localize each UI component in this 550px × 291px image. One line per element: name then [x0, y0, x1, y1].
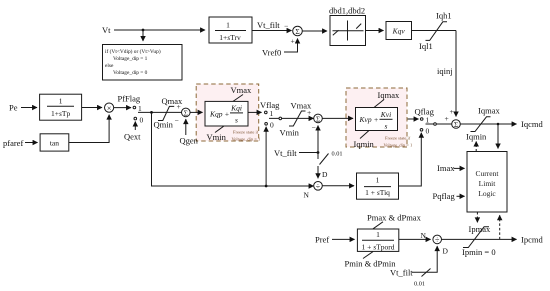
svg-text:Iqh1: Iqh1 [436, 11, 452, 21]
wire Tp to multiplier [82, 107, 102, 109]
wire Imax into CLL [454, 167, 465, 169]
block 1/(1+sTrv) [209, 17, 252, 43]
svg-text:+: + [445, 114, 449, 123]
label Iqh1 [436, 11, 452, 21]
wire Vref0 to S1 [284, 39, 298, 53]
label Ipmax [469, 224, 491, 234]
node Vref0 label [262, 48, 281, 58]
junction Vt_filt riser [317, 151, 320, 154]
svg-text:s: s [235, 116, 238, 125]
svg-text:Voltage_dip = 1: Voltage_dip = 1 [384, 143, 413, 148]
svg-text:1: 1 [376, 176, 380, 185]
plus sign at S4 [307, 108, 311, 117]
svg-text:Kvi: Kvi [380, 110, 391, 119]
svg-text:Iqmax: Iqmax [478, 106, 500, 116]
label Iqmin (lower) [466, 132, 487, 142]
svg-text:Vt_filt: Vt_filt [257, 20, 280, 30]
freeze note (Kqp) [232, 130, 261, 142]
svg-text:Ipmin = 0: Ipmin = 0 [462, 247, 496, 257]
wire Tiq up to Qflag contact 0 [399, 133, 422, 186]
label Vflag [260, 100, 280, 110]
wire Vt_filt middle to riser [299, 152, 318, 154]
svg-text:Iql1: Iql1 [419, 41, 433, 51]
svg-text:Logic: Logic [478, 189, 496, 198]
plus sign at S2 input [445, 114, 449, 123]
label PfFlag [118, 94, 141, 104]
switch Vflag contact 1 [265, 109, 274, 118]
svg-text:Iqmax: Iqmax [378, 90, 400, 100]
svg-text:Qext: Qext [124, 132, 141, 142]
wire S3 to Kqp block [190, 111, 202, 113]
svg-text:D: D [322, 170, 328, 179]
switch Qflag wiper output [426, 123, 452, 126]
svg-text:Pe: Pe [9, 103, 18, 113]
svg-text:÷: ÷ [435, 235, 440, 244]
svg-text:dbd1,dbd2: dbd1,dbd2 [329, 6, 365, 16]
svg-text:−: − [175, 116, 179, 125]
node Ipcmd label [521, 235, 543, 245]
PI block Kqp+Kqi/s [205, 101, 248, 126]
switch Qflag contact 0 [420, 127, 429, 136]
wire Pref to Tpord block [332, 238, 355, 240]
label Iql1 [419, 41, 433, 51]
wire iqinj down to summer S2 [455, 31, 457, 117]
multiplier M1 [105, 103, 114, 113]
svg-text:+: + [450, 107, 454, 116]
limiter Iqmax/Iqmin on Iqcmd [471, 117, 491, 132]
wire Vt_filt bottom to D2 with 0.01 floor [412, 246, 437, 287]
svg-text:Ipmax: Ipmax [469, 224, 491, 234]
wire riser up to S4 (minus) [317, 126, 319, 153]
wire deadband to Kqv [366, 30, 384, 32]
svg-text:Σ: Σ [295, 27, 299, 36]
svg-text:Σ: Σ [454, 121, 458, 129]
svg-text:×: × [107, 103, 112, 113]
node Qgen label [180, 136, 199, 146]
svg-text:Kvp +: Kvp + [359, 115, 379, 124]
wire pfaref to tan [25, 142, 38, 144]
wire tan to multiplier [69, 115, 109, 143]
switch PfFlag contact 0 [134, 116, 144, 125]
svg-text:Iqcmd: Iqcmd [521, 119, 543, 129]
svg-text:N: N [304, 191, 310, 200]
freeze note (Kvp) [384, 136, 413, 148]
wire Vt to Trv block [114, 29, 205, 31]
switch PfFlag output wire [138, 111, 182, 113]
plus sign at S3 [177, 102, 181, 111]
svg-text:0: 0 [140, 116, 144, 125]
svg-text:Freeze state if: Freeze state if [233, 130, 259, 135]
label Qmax [162, 96, 184, 106]
switch Vflag output wire [269, 117, 314, 120]
svg-text:Qmax: Qmax [162, 96, 184, 106]
svg-text:1+sTrv: 1+sTrv [219, 33, 241, 42]
svg-text:Vmax: Vmax [231, 85, 253, 95]
svg-text:0: 0 [270, 121, 274, 130]
wire Kqv to corner [412, 30, 457, 32]
svg-text:PfFlag: PfFlag [118, 94, 141, 104]
junction Q command branch [150, 111, 153, 114]
dashed wire Ipcmd feedback up into CLL [499, 215, 501, 239]
svg-text:Vt_filt: Vt_filt [274, 148, 297, 158]
svg-text:Vref0: Vref0 [262, 48, 281, 58]
node Imax label [437, 163, 455, 173]
summer S2 [452, 120, 461, 129]
svg-text:1: 1 [426, 116, 430, 125]
node pfaref label [3, 138, 23, 148]
block 1/(1+sTp) [40, 94, 82, 120]
plus sign at S1 [291, 37, 295, 46]
svg-text:Kqp +: Kqp + [209, 110, 229, 119]
svg-text:Pref: Pref [315, 235, 329, 245]
wire D2 to Ipcmd [442, 238, 517, 240]
summer S4 [314, 114, 323, 123]
svg-text:Qmin: Qmin [154, 120, 174, 130]
label Pmax & dPmax [367, 213, 422, 229]
deadband block [330, 16, 366, 46]
limiter Qmax/Qmin [158, 106, 174, 120]
node Vt_filt label (top) [257, 20, 280, 30]
plus sign iqinj at S2 [450, 107, 454, 116]
node Vt label [102, 25, 111, 35]
label Vmin (row2) [280, 128, 300, 138]
svg-text:tan: tan [50, 139, 59, 148]
svg-text:s: s [385, 122, 388, 131]
svg-text:iqinj: iqinj [437, 66, 453, 76]
svg-text:Vt: Vt [102, 25, 111, 35]
label Pmin & dPmin [345, 252, 397, 269]
svg-text:1: 1 [226, 21, 230, 30]
svg-text:Kqv: Kqv [392, 27, 406, 36]
svg-text:Qgen: Qgen [180, 136, 199, 146]
svg-text:Voltage_dip = 0: Voltage_dip = 0 [113, 70, 148, 76]
svg-text:Voltage_dip = 1: Voltage_dip = 1 [232, 137, 261, 142]
label Vmax (Kqp limit) [231, 85, 253, 101]
svg-text:÷: ÷ [316, 182, 321, 191]
svg-text:Iqmin: Iqmin [466, 132, 487, 142]
svg-text:0.01: 0.01 [332, 151, 343, 158]
label N at D1 [304, 191, 310, 200]
svg-text:if (Vt<Vdip) or (Vt>Vup): if (Vt<Vdip) or (Vt>Vup) [105, 48, 161, 55]
wire S1 to deadband [302, 30, 327, 32]
svg-text:Limit: Limit [479, 179, 497, 188]
minus sign at S4 [312, 123, 316, 132]
divider D1 [314, 182, 323, 191]
svg-text:N: N [421, 231, 427, 240]
svg-text:Pmin & dPmin: Pmin & dPmin [345, 259, 397, 269]
block tan [40, 134, 69, 151]
svg-text:0: 0 [426, 127, 430, 136]
node iqinj label [437, 66, 453, 76]
label Iqmax (Kvp limit) [374, 90, 400, 108]
svg-text:Kqi: Kqi [230, 104, 242, 113]
wire Qgen up to S3 [185, 119, 187, 135]
svg-text:Σ: Σ [184, 109, 188, 117]
svg-text:−: − [312, 123, 316, 132]
block Current Limit Logic [467, 152, 507, 213]
wire Trv to summer S1 [252, 30, 292, 32]
wire S2 to Iqcmd [460, 123, 516, 125]
label Ipmin = 0 [462, 247, 496, 257]
label Iqmin (Kvp limit) [354, 131, 375, 150]
dashed freeze box around Kqp PI [196, 84, 259, 141]
junction Vflag0 tap [265, 185, 268, 188]
wire Pqflag into CLL [457, 195, 465, 197]
svg-text:1: 1 [59, 96, 63, 105]
wire Kqp block to Vflag switch [248, 111, 262, 113]
wire Tpord to divider D2 [399, 238, 431, 240]
node Iqcmd label [521, 119, 543, 129]
svg-text:+: + [291, 37, 295, 46]
label Qmin [154, 120, 174, 130]
wire D1 to Tiq block [322, 185, 354, 187]
svg-text:Voltage_dip = 1: Voltage_dip = 1 [113, 56, 148, 62]
minus sign at S3 [175, 116, 179, 125]
summer S1 [293, 26, 303, 36]
limiter Vmax/Vmin [289, 111, 306, 126]
PI block Kvp+Kvi/s [356, 108, 398, 131]
label dbd1,dbd2 [329, 6, 365, 16]
svg-text:Pmax & dPmax: Pmax & dPmax [367, 213, 422, 223]
label Iqmax (upper) [478, 106, 500, 116]
junction Vt branch [142, 29, 145, 32]
limiter Iqh1/Iql1 [426, 22, 448, 41]
wire Iqcmd feedback down into CLL [497, 123, 500, 149]
svg-text:else: else [105, 63, 114, 69]
label Vmax (row2) [291, 101, 313, 111]
wire riser down with 0.01 floor switch [318, 151, 343, 180]
label Vmin (Kqp limit) [207, 126, 227, 142]
voltage dip logic box [103, 45, 183, 81]
dashed wire CLL down to Ip limiter [476, 212, 478, 222]
block 1/(1+sTiq) [357, 173, 399, 199]
dashed freeze box around Kvp PI [346, 88, 407, 147]
svg-text:1+sTp: 1+sTp [51, 109, 70, 118]
svg-text:D: D [443, 247, 449, 256]
node Vt_filt label (bottom) [390, 268, 413, 278]
label Qflag [415, 107, 435, 117]
wire S4 to Kvp block [322, 117, 353, 119]
dashed wire CLL up to Iq limiter [475, 142, 477, 152]
svg-text:Ipcmd: Ipcmd [521, 235, 543, 245]
divider D2 [433, 235, 442, 244]
svg-text:Pqflag: Pqflag [433, 191, 456, 201]
summer S3 [182, 108, 191, 117]
node Qext label [124, 132, 141, 142]
svg-text:1: 1 [376, 230, 380, 239]
switch Qflag contact 1 [398, 116, 430, 125]
label N at D2 [421, 231, 427, 240]
wire Pe to Tp block [21, 107, 37, 109]
switch Vflag contact 0 [265, 121, 274, 130]
wire Q command down and right (bottom bus) [152, 112, 314, 186]
svg-text:Vt_filt: Vt_filt [390, 268, 413, 278]
svg-text:Σ: Σ [316, 115, 320, 123]
node Vt_filt label (middle) [274, 148, 297, 158]
limiter Ipmax/Ipmin on Ipcmd [463, 227, 489, 248]
minus sign at S1 [284, 22, 288, 31]
svg-text:Vmin: Vmin [207, 132, 227, 142]
wire tap up to Vflag contact 0 [265, 127, 267, 186]
svg-text:Imax: Imax [437, 163, 455, 173]
svg-text:1 + sTiq: 1 + sTiq [365, 188, 390, 197]
svg-text:Current: Current [476, 169, 500, 178]
svg-text:1 + sTpord: 1 + sTpord [362, 243, 395, 252]
svg-text:−: − [284, 22, 288, 31]
gain block Kqv [386, 22, 412, 40]
switch PfFlag contact 1 [114, 104, 142, 113]
wire Vt down to voltage-dip box [142, 30, 144, 41]
wire Qext up to PfFlag 0 [134, 122, 136, 131]
label D at D2 [443, 247, 449, 256]
svg-text:0.01: 0.01 [414, 281, 425, 288]
svg-text:Iqmin: Iqmin [354, 139, 375, 149]
svg-text:+: + [307, 108, 311, 117]
svg-text:1: 1 [270, 109, 274, 118]
node Pqflag label [433, 191, 456, 201]
node Pref label [315, 235, 329, 245]
svg-text:Freeze state if: Freeze state if [385, 136, 411, 141]
svg-text:pfaref: pfaref [3, 138, 23, 148]
svg-text:1: 1 [138, 104, 142, 113]
node Pe label [9, 103, 18, 113]
block 1/(1+sTpord) [357, 229, 398, 252]
svg-text:Vmin: Vmin [280, 128, 300, 138]
